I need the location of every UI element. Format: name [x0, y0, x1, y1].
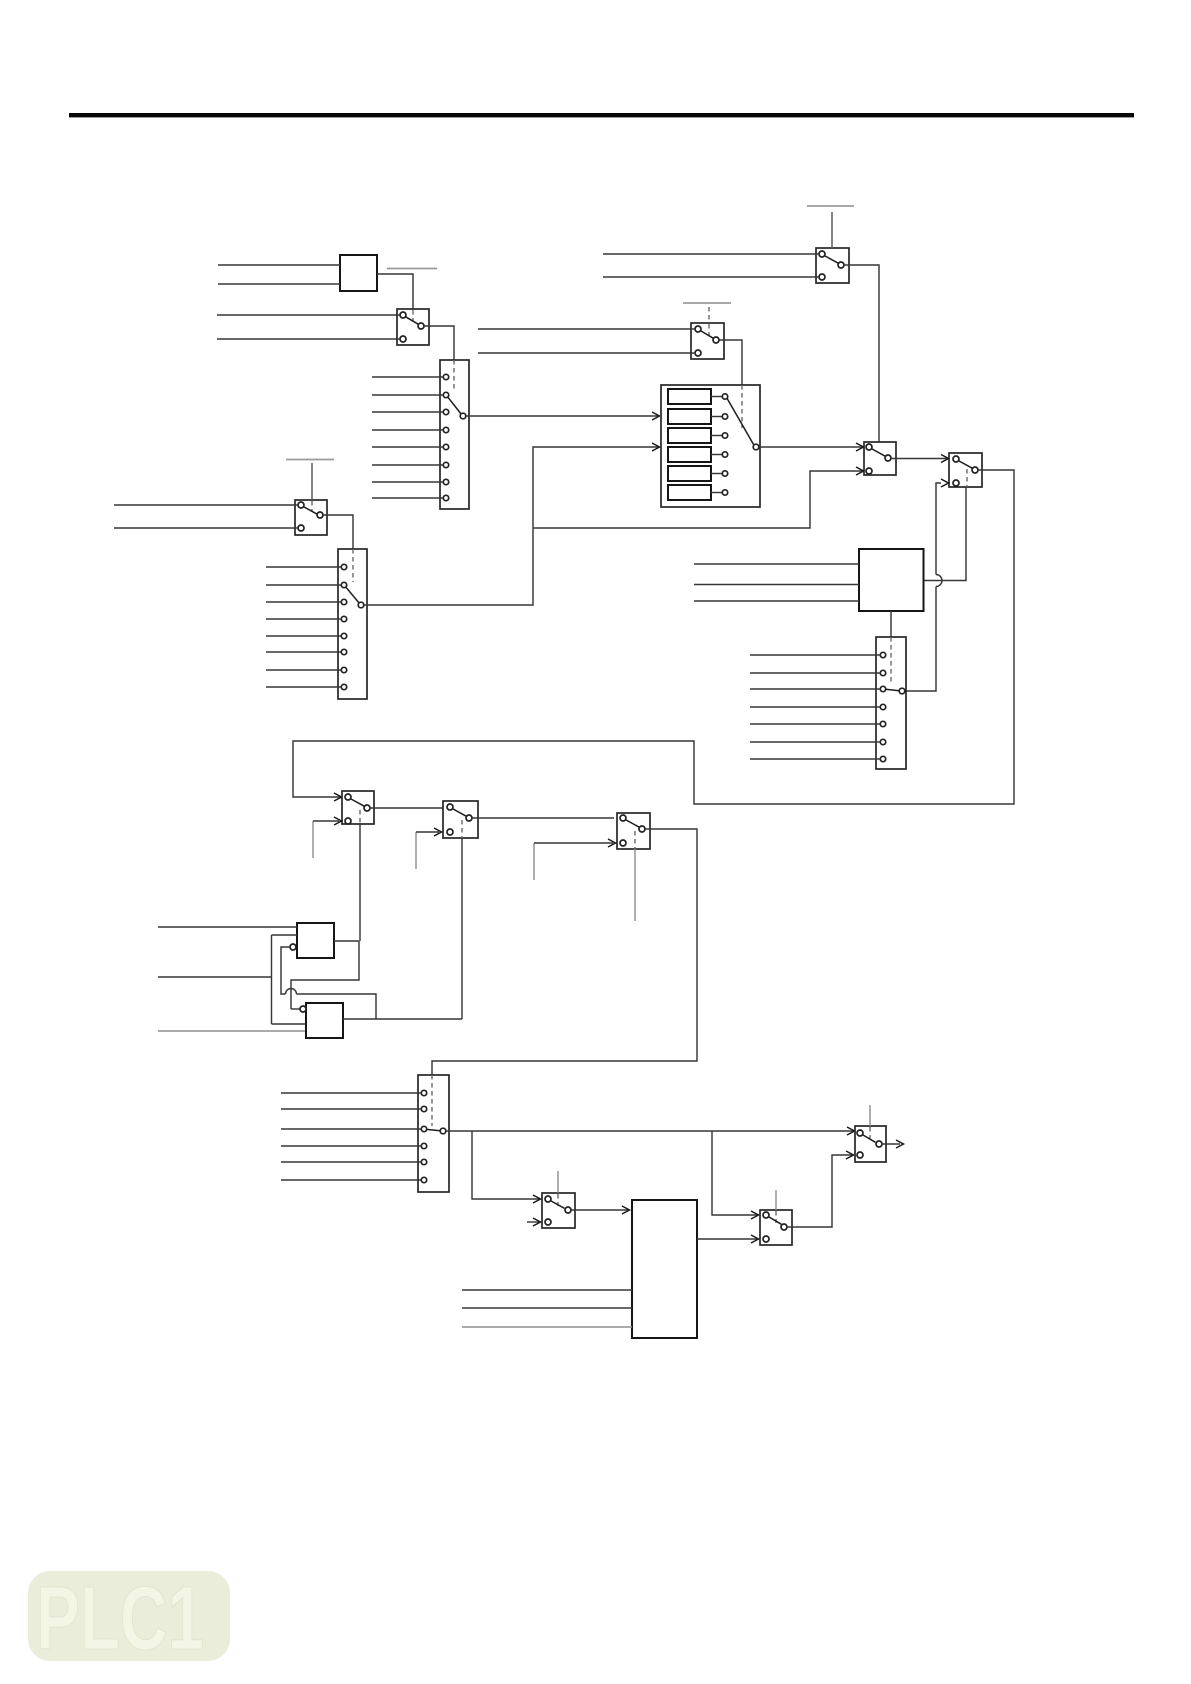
- wire SEL3 output up to S2 input 2 (arrow, hops over SQ output): [905, 479, 949, 691]
- wire SW8 input 2 stub (arrow): [527, 1218, 541, 1226]
- switch S2: [949, 453, 982, 487]
- wire BX output to switch SW6 input 2 (arrow): [697, 1235, 759, 1243]
- wire SW5 output down-left to SEL4 control: [432, 829, 697, 1075]
- block U1 (2-input box, top left): [340, 255, 377, 291]
- switch STR (top right): [816, 248, 849, 283]
- wire SW6 control tick: [775, 1190, 777, 1210]
- block BX (bottom box): [632, 1200, 697, 1338]
- page top rule: [69, 113, 1134, 117]
- wire SEL4 output to switch SW7 input 1 (arrow): [446, 1127, 855, 1135]
- wire SW8 output to block BX (arrow): [571, 1206, 630, 1214]
- wire branch to switch SW8 input 1 (arrow): [472, 1131, 541, 1203]
- wire SWL input 2: [114, 527, 298, 529]
- selector SEL4 (6-position): [418, 1075, 449, 1192]
- wire SW6 output to switch SW7 input 2 (arrow): [787, 1151, 854, 1227]
- wire SQ input 3: [694, 600, 859, 602]
- wire STR input 2: [603, 276, 819, 278]
- wire SQ output to S2 bottom: [924, 487, 967, 581]
- selector SEL2 (8-position): [440, 360, 469, 509]
- wire SQ input 2: [694, 584, 859, 586]
- wire U1 input 2: [218, 283, 340, 285]
- selector SEL1 (8-position): [338, 549, 367, 699]
- wires SEL2 inputs (8): [372, 377, 443, 498]
- wire BX input 3: [462, 1326, 632, 1328]
- wire SQ input 1: [694, 563, 859, 565]
- wire SW5 input 2 stub (arrow): [534, 839, 616, 880]
- wires SEL3 inputs (7): [750, 655, 880, 759]
- svg-text:PLC1: PLC1: [36, 1569, 204, 1669]
- wire SWL output to SEL1 control: [323, 515, 353, 549]
- selector SEL3 (7-position): [876, 637, 906, 769]
- wire SW4 control down to block B output: [461, 838, 463, 1019]
- wire SW7 control tick: [869, 1105, 871, 1126]
- switch SW3: [342, 791, 374, 824]
- wire SQ bottom to SEL3 control: [890, 611, 892, 637]
- wires SEL4 inputs (6): [281, 1093, 421, 1180]
- block B (with input bubble): [300, 1003, 343, 1038]
- wire SW7 output (arrow): [882, 1140, 904, 1148]
- wire SEL1 output to block BB input 2 (arrow): [364, 443, 660, 605]
- wire SW8 control tick: [557, 1171, 559, 1193]
- block BB (6-register selector): [661, 385, 760, 507]
- wire S2 output loop to switch SW3 input 1 (arrow): [293, 470, 1014, 804]
- switch SW8: [542, 1193, 575, 1228]
- wire S1R output to switch S2 input 1 (arrow): [891, 455, 949, 463]
- wire SEL2 output to block BB input 1 (arrow): [466, 412, 660, 420]
- watermark PLC1: [28, 1569, 230, 1669]
- wire branch from node (533,528) to switch S1R input 2 (arrow): [533, 467, 864, 528]
- wire STR output to switch S1R control: [844, 265, 879, 442]
- block SQ (square box): [859, 549, 924, 611]
- switch SW1: [397, 309, 429, 345]
- wire block B output to SW4 control rail: [343, 1018, 462, 1020]
- wire SW1 output to SEL2 control: [424, 326, 454, 360]
- wire feedback to bubble A (hops over vertical): [281, 947, 376, 1019]
- wire SW1 input 1: [217, 314, 400, 316]
- wire SW3 output to switch SW4 input 1: [370, 807, 447, 809]
- wire SW3 control down to node at block A output: [359, 824, 361, 941]
- switch SW7: [855, 1126, 886, 1162]
- switch S1R: [864, 442, 896, 475]
- switch STR2 (mid, above block BB): [691, 323, 724, 359]
- wires SEL1 inputs (8): [266, 567, 341, 687]
- label overline above STR: [807, 205, 854, 207]
- label overline (right of U1): [387, 268, 437, 270]
- wire BX input 1: [462, 1289, 632, 1291]
- wire block A input 1: [158, 926, 297, 928]
- wire STR control tick: [831, 212, 833, 248]
- wire SW4 input 2 stub (arrow): [416, 828, 442, 869]
- switch SW6: [760, 1210, 792, 1245]
- wire SW3 input 2 stub (arrow): [313, 817, 342, 858]
- wire STR2 output to block BB control: [719, 340, 742, 385]
- wire STR input 1: [603, 253, 819, 255]
- label overline above SWL: [286, 459, 334, 461]
- wire branch to switch SW6 input 1 (arrow): [712, 1131, 759, 1219]
- wire SW5 bottom stub: [634, 849, 636, 921]
- wire BX input 2: [462, 1307, 632, 1309]
- wire STR2 control tick (dashed): [708, 307, 710, 323]
- switch SW4: [443, 801, 478, 838]
- wire STR2 input 2: [478, 352, 695, 354]
- wire U1 output to SW1 control: [377, 274, 413, 309]
- block A (with input bubble): [290, 923, 334, 958]
- wire SWL input 1: [114, 504, 298, 506]
- wire STR2 input 1: [478, 328, 695, 330]
- wire block B input 3 (gray): [158, 1030, 306, 1032]
- wire block A output net (up to SW3, down to bubble B): [291, 941, 359, 1009]
- wire shared input rail to blocks A and B: [158, 935, 306, 1024]
- switch SWL (left): [295, 500, 327, 535]
- switch SW5: [617, 813, 650, 849]
- wire U1 input 1: [218, 264, 340, 266]
- wire SW4 output to switch SW5 input 1: [472, 817, 614, 819]
- wire SWL control tick: [311, 463, 313, 500]
- label overline above STR2: [683, 302, 731, 304]
- wire BB output to switch S1R input 1 (arrow): [759, 443, 864, 451]
- wire SW1 input 2: [217, 338, 400, 340]
